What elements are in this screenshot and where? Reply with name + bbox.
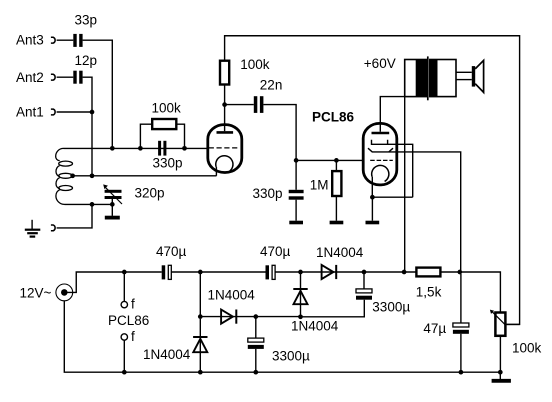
svg-text:1N4004: 1N4004 (143, 347, 191, 362)
pentode anode plate (372, 132, 390, 135)
pentode suppressor grid g3 (372, 140, 388, 145)
node anode / C5 junction (222, 102, 227, 107)
wire C6 top lead (295, 160, 297, 189)
svg-text:Ant1: Ant1 (16, 105, 44, 120)
terminal Ant2 (51, 74, 55, 80)
svg-text:f: f (131, 297, 135, 312)
wire transformer primary down to +rail (404, 97, 406, 272)
pentode cathode lead (371, 177, 373, 198)
node D3 bottom (298, 314, 303, 319)
capacitor C1 33p (73, 34, 82, 47)
svg-text:1N4004: 1N4004 (208, 288, 256, 303)
pentode cathode arc (372, 165, 389, 181)
potentiometer P1 100k (490, 310, 506, 336)
resistor R1 100k grid (140, 119, 184, 148)
node Ant1/Ant2 junction (90, 110, 95, 115)
wire D4 leads (199, 319, 201, 372)
wire C5 to pentode grid (263, 105, 296, 161)
wire D3 leads (300, 274, 302, 317)
capacitor C8 470u (266, 265, 270, 279)
wire coil top to grid line (64, 147, 208, 149)
wire mid rail (200, 316, 300, 318)
node 1M junction (334, 158, 339, 163)
arrow of C3 (103, 184, 122, 204)
wire secondary to speaker top (456, 71, 472, 73)
svg-text:100k: 100k (152, 100, 182, 115)
wire node down to mid rail (199, 272, 201, 317)
wire tap to triode cathode (73, 175, 217, 177)
svg-text:1M: 1M (310, 177, 329, 192)
svg-text:f: f (131, 329, 135, 344)
terminal ground socket (51, 225, 55, 231)
svg-text:1N4004: 1N4004 (316, 245, 364, 260)
terminal f1 heater (121, 301, 127, 307)
node grid-right R1 junction (182, 146, 187, 151)
capacitor C4 330p grid (158, 141, 166, 156)
wire secondary to speaker bottom (456, 79, 472, 81)
node transformer rail junction (402, 270, 407, 275)
svg-text:100k: 100k (240, 57, 270, 72)
svg-text:320p: 320p (135, 186, 165, 201)
inductor L1 antenna coil (56, 148, 73, 204)
triode cathode arc (216, 156, 233, 172)
pentode V1b envelope (363, 123, 397, 184)
pentode control grid g1 dashed (370, 159, 393, 161)
triode anode plate (217, 131, 234, 134)
wire C9 bottom to mid rail (301, 300, 365, 317)
triode anode lead up (224, 85, 226, 132)
diode D4 1N4004 vertical left (193, 336, 207, 352)
terminal f2 heater (121, 334, 127, 340)
speaker LS1 (472, 60, 484, 92)
wire cathode to ground (371, 197, 373, 221)
pentode anode lead to transformer (380, 97, 404, 132)
node pot bottom rail (498, 370, 503, 375)
node coil tap (70, 173, 75, 178)
node pentode grid / C6 (294, 158, 299, 163)
svg-text:3300µ: 3300µ (272, 349, 310, 364)
wire C8 to D1 (275, 271, 416, 273)
node grid-left R1 junction (138, 146, 143, 151)
terminal Ant3 (51, 37, 55, 43)
node D4 bottom rail (198, 370, 203, 375)
svg-text:Ant2: Ant2 (16, 70, 44, 85)
wire C10 leads (255, 317, 257, 373)
svg-text:330p: 330p (253, 186, 283, 201)
pentode g3 lead to cathode line (388, 144, 413, 197)
ground below cathode (366, 221, 380, 225)
node tuning/grid junction (110, 146, 115, 151)
svg-text:100k: 100k (512, 341, 542, 356)
wire 12V to top rail (64, 272, 161, 292)
capacitor C9 3300u right (356, 289, 372, 293)
wire 12V shield down to bottom rail (64, 301, 499, 372)
transformer T1 primary (405, 60, 427, 97)
node f1 top (122, 270, 127, 275)
wire f2 to bottom rail (123, 340, 125, 372)
node coil bottom / C3 lead (110, 202, 115, 207)
terminal Ant1 (51, 109, 55, 115)
wire Ant2 to C2 (57, 76, 74, 78)
node C11 bottom rail (459, 370, 464, 375)
triode grid dashed (209, 147, 238, 149)
svg-text:Ant3: Ant3 (16, 33, 44, 48)
capacitor C6 330p (289, 190, 304, 200)
ground below R3 (330, 221, 344, 225)
wire C6 bottom lead (295, 200, 297, 221)
ground chassis symbol (25, 220, 41, 237)
svg-text:PCL86: PCL86 (312, 109, 355, 124)
wire C2 down to coil tap (83, 77, 92, 176)
capacitor C7 470u (162, 265, 166, 279)
wire C9 top lead (363, 272, 365, 289)
wire ground socket to coil bottom (57, 204, 92, 228)
transformer T1 secondary (430, 60, 456, 97)
resistor R3 1M (332, 160, 341, 220)
diode D2 1N4004 mid (221, 310, 237, 324)
triode cathode lead (215, 167, 217, 176)
node pentode cathode (370, 195, 375, 200)
wire to f1 (123, 272, 125, 301)
wire pot bottom to rail (499, 336, 501, 372)
resistor R4 1,5k (416, 268, 440, 277)
wire anode node to C5 (225, 104, 254, 106)
svg-text:1,5k: 1,5k (416, 285, 442, 300)
node D3 top (298, 270, 303, 275)
node coil bottom / ground riser (90, 202, 95, 207)
wire C11 leads (460, 274, 462, 372)
resistor R2 100k anode (220, 61, 229, 85)
wire C7 to node (171, 271, 265, 273)
svg-text:3300µ: 3300µ (372, 300, 410, 315)
node C10 bottom rail (253, 370, 258, 375)
svg-text:12V~: 12V~ (20, 286, 52, 301)
transformer core (427, 56, 429, 100)
ground below C6 (289, 221, 303, 225)
wire C1 to node, down to tuning line (83, 40, 113, 148)
wire cathode to g3 riser (372, 196, 412, 198)
svg-text:1N4004: 1N4004 (291, 318, 339, 333)
node R4 right (457, 270, 462, 275)
svg-text:33p: 33p (75, 13, 98, 28)
svg-text:22n: 22n (260, 77, 283, 92)
capacitor C3 320p variable (105, 190, 122, 199)
capacitor C5 22n (254, 96, 264, 113)
wire C3 bottom to ground (111, 199, 113, 216)
capacitor C2 12p (73, 71, 82, 84)
wire pot wiper to right edge (505, 323, 520, 325)
wire Ant3 to C1 (57, 39, 74, 41)
svg-text:470µ: 470µ (156, 244, 187, 259)
svg-text:470µ: 470µ (260, 244, 291, 259)
wire grid node to pentode (296, 159, 363, 161)
capacitor C10 3300u left (248, 338, 264, 342)
ground below pot (492, 372, 511, 381)
node C10 top (253, 314, 258, 319)
wire R2 top to +rail (225, 36, 520, 325)
node D2 left mid rail (198, 314, 203, 319)
node f2 bottom rail (122, 370, 127, 375)
capacitor C11 47u (453, 323, 469, 327)
svg-text:PCL86: PCL86 (108, 313, 149, 328)
svg-text:+60V: +60V (364, 56, 396, 71)
ground below C3 (105, 216, 120, 220)
svg-text:330p: 330p (153, 155, 183, 170)
pentode g2 lead to supply (389, 152, 461, 272)
node rectifier input 1 (198, 270, 203, 275)
wire R4 to node (440, 272, 500, 313)
pentode screen grid g2 (368, 148, 393, 152)
diode D1 1N4004 top (322, 265, 338, 279)
terminal J1 12V input (56, 284, 73, 301)
svg-text:12p: 12p (75, 53, 98, 68)
node tap/Ant2 junction (90, 173, 95, 178)
node C9 top (362, 270, 367, 275)
triode V1a envelope (208, 125, 242, 173)
wire Ant1 to node (57, 111, 92, 113)
wire coil bottom (65, 203, 113, 205)
diode D3 vertical (293, 288, 307, 304)
svg-text:47µ: 47µ (423, 321, 446, 336)
